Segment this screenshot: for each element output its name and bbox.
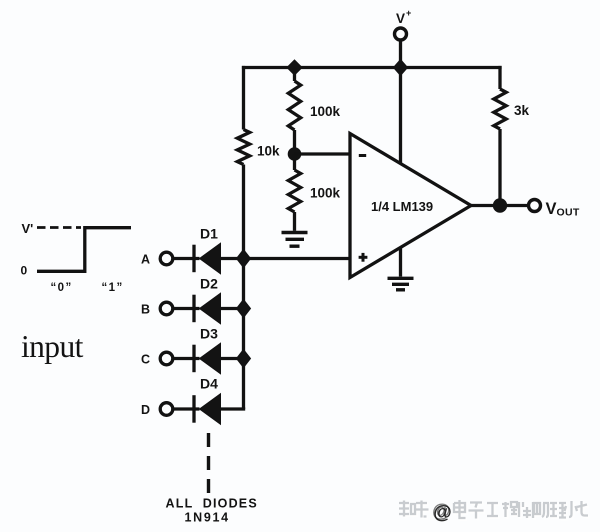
ground under R3 xyxy=(282,233,308,247)
wire: top supply rail xyxy=(242,66,502,69)
op-amp ground pin wire xyxy=(399,248,402,277)
svg-text:+: + xyxy=(406,8,411,18)
V+ supply terminal xyxy=(395,28,407,68)
resistor R2 100k (upper) xyxy=(288,68,300,155)
svg-text:B: B xyxy=(141,303,150,317)
dashed continuation line below D4 xyxy=(207,433,210,494)
svg-text:D2: D2 xyxy=(200,276,218,292)
wire: V+ rail down to op-amp top xyxy=(399,68,402,164)
svg-text:100k: 100k xyxy=(310,104,341,119)
junction: R2/R3 to inverting input xyxy=(288,147,302,161)
diode D4 xyxy=(173,394,245,425)
junction node B on bus xyxy=(237,300,251,318)
resistor R1 10k xyxy=(237,66,249,259)
svg-text:D: D xyxy=(141,403,150,417)
VOUT label xyxy=(546,200,580,219)
junction node A on bus xyxy=(237,250,251,268)
diode D3 xyxy=(173,343,244,374)
wire: op-amp output xyxy=(471,204,528,207)
input terminal D xyxy=(160,403,173,416)
svg-text:0: 0 xyxy=(21,264,28,278)
svg-text:D4: D4 xyxy=(200,376,218,392)
non-inverting input mark xyxy=(359,253,368,262)
input terminal B xyxy=(160,302,173,315)
svg-text:D1: D1 xyxy=(200,226,218,242)
junction: output node xyxy=(493,198,507,212)
V+ label xyxy=(396,8,411,26)
input terminal A xyxy=(160,252,173,265)
svg-text:OUT: OUT xyxy=(557,207,580,219)
svg-text:10k: 10k xyxy=(257,144,280,159)
input waveform: step edge xyxy=(37,228,131,272)
svg-text:3k: 3k xyxy=(514,103,530,118)
svg-text:input: input xyxy=(21,329,84,364)
input waveform: V' dashed level xyxy=(37,226,81,229)
svg-text:V: V xyxy=(546,200,557,218)
svg-text:@: @ xyxy=(432,501,451,522)
wire: diode bus vertical xyxy=(242,259,245,410)
ground under op-amp xyxy=(388,278,414,290)
svg-text:“0”: “0” xyxy=(51,282,73,294)
svg-text:C: C xyxy=(141,353,150,367)
svg-text:A: A xyxy=(141,253,150,267)
watermark (embossed) xyxy=(399,500,590,523)
input terminal C xyxy=(160,352,173,365)
diode D1 xyxy=(173,243,244,274)
junction node C on bus xyxy=(237,350,251,368)
svg-text:100k: 100k xyxy=(310,186,341,201)
ALL DIODES 1N914 note xyxy=(166,497,258,525)
svg-text:V: V xyxy=(396,11,405,26)
svg-text:V': V' xyxy=(22,221,34,236)
wire: non-inverting input from diode bus xyxy=(244,257,351,260)
inverting input mark xyxy=(359,154,366,157)
svg-text:1N914: 1N914 xyxy=(185,511,230,525)
svg-text:D3: D3 xyxy=(200,326,218,342)
junction: rail to 100k R2 xyxy=(287,60,302,75)
svg-text:“1”: “1” xyxy=(102,282,124,294)
junction at V+ and rail xyxy=(394,60,408,76)
output terminal VOUT xyxy=(529,200,541,212)
diode D2 xyxy=(173,293,244,324)
resistor R3 100k (lower) xyxy=(288,154,300,231)
wire: to inverting input xyxy=(295,152,351,155)
resistor R4 3k xyxy=(494,66,506,206)
svg-text:ALL DIODES: ALL DIODES xyxy=(166,497,258,511)
svg-text:1/4 LM139: 1/4 LM139 xyxy=(371,199,433,214)
op-amp U1 1/4 LM139 xyxy=(350,134,471,278)
